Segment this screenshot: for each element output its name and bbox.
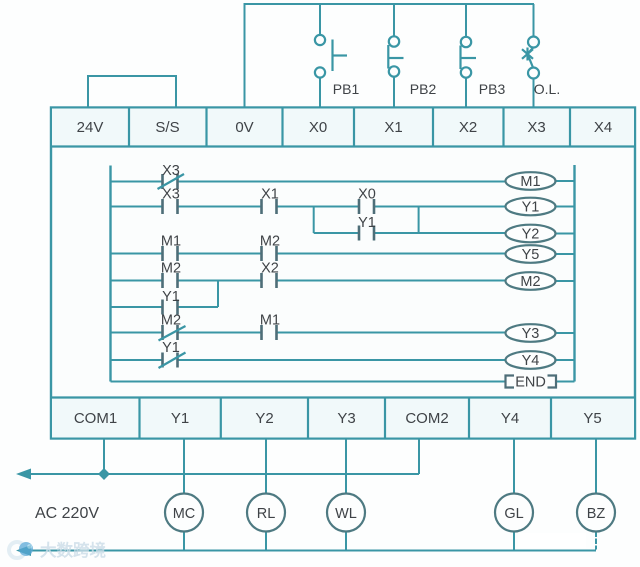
svg-text:WL: WL [335, 506, 357, 522]
contact Y1 branch rung4 [163, 300, 178, 315]
wire WL to bottom line [345, 532, 347, 551]
wire Y5 terminal to BZ [595, 439, 597, 494]
wire rung2 mid1 [178, 206, 261, 208]
wire rung5 mid [178, 332, 261, 334]
arrow AC neutral left [16, 545, 31, 556]
wire rung2 to coil Y1 [375, 206, 506, 208]
watermark logo bottom left [9, 542, 33, 558]
svg-text:M2: M2 [161, 261, 181, 277]
wire BZ drop dashes redrawn [595, 533, 597, 549]
svg-text:X2: X2 [261, 261, 279, 277]
svg-text:X1: X1 [384, 119, 402, 136]
contact X2 rung4 [262, 273, 277, 288]
svg-text:AC 220V: AC 220V [35, 505, 99, 522]
wire COM1 drop [103, 439, 105, 475]
wire rung6 left [111, 359, 163, 361]
coil Y1 [506, 198, 556, 216]
svg-text:M2: M2 [520, 274, 540, 290]
contact X3 NC rung1 [163, 174, 178, 189]
wire PB2 drop from bus [393, 4, 395, 36]
contact Y1 branch rung2 [359, 226, 374, 241]
svg-text:Y4: Y4 [501, 410, 519, 427]
wire rung2 mid2 [278, 206, 359, 208]
wire rung5 to coil Y3 [278, 332, 506, 334]
wire rung5 left [111, 332, 163, 334]
wire Y3 terminal to WL [345, 439, 347, 494]
coil M2 [506, 272, 556, 290]
wire jumper 24V to S/S [88, 76, 176, 107]
wire coil Y5 to rail [556, 253, 575, 255]
svg-text:M2: M2 [260, 234, 280, 250]
coil Y2 [506, 225, 556, 243]
wire Y4 terminal to GL [513, 439, 515, 494]
wire coil Y1 to rail [556, 206, 575, 208]
svg-text:X2: X2 [459, 119, 477, 136]
svg-text:Y4: Y4 [522, 353, 540, 369]
wire END to rail [556, 381, 575, 383]
wire PB3 to X2 terminal [465, 78, 467, 107]
svg-text:X0: X0 [358, 187, 376, 203]
contact M2 NC rung5 [163, 325, 178, 340]
svg-text:M1: M1 [520, 174, 540, 190]
svg-text:X3: X3 [527, 119, 545, 136]
wire coil Y3 to rail [556, 332, 575, 334]
coil Y4 [506, 351, 556, 369]
wire top bus [245, 4, 535, 107]
slash NC rung5 [159, 326, 186, 341]
terminal strip bottom tint [52, 399, 634, 438]
svg-text:Y1: Y1 [522, 200, 540, 216]
junction dot COM1/AC [98, 468, 110, 480]
wire rung4 parallel branch left [111, 306, 163, 308]
pushbutton PB2 (NC) [388, 36, 403, 76]
wire coil Y2 to rail [556, 233, 575, 235]
END instruction [506, 375, 557, 391]
overload contact O.L. [522, 37, 539, 79]
svg-text:Y1: Y1 [162, 340, 180, 356]
svg-text:END: END [515, 375, 546, 391]
wire MC to bottom line [183, 532, 185, 551]
svg-text:Y2: Y2 [255, 410, 273, 427]
svg-text:X4: X4 [594, 119, 612, 136]
contact M2 rung4 [163, 273, 178, 288]
wire branch to Y1 contact [314, 232, 359, 234]
ladder left rail [109, 166, 111, 382]
wire rung6 to coil Y4 [178, 359, 506, 361]
wire coil Y4 to rail [556, 359, 575, 361]
contact Y1 NC rung6 [163, 353, 178, 368]
contact M1 rung5 [262, 325, 277, 340]
ladder right rail [573, 165, 575, 382]
contact X3 NO rung2 [163, 199, 178, 214]
terminal strip bottom row [51, 398, 635, 439]
output device WL [327, 494, 365, 532]
svg-text:Y3: Y3 [337, 410, 355, 427]
wire PB1 drop from bus [319, 4, 321, 35]
svg-text:PB1: PB1 [333, 81, 360, 97]
wire Y2 terminal to RL [265, 439, 267, 494]
wire coil M2 to rail [556, 280, 575, 282]
wire branch after Y1 contact to coil Y2 [375, 232, 506, 234]
wire rung4 left [111, 280, 163, 282]
svg-text:BZ: BZ [587, 506, 606, 522]
terminal strip top tint [52, 109, 634, 146]
wire rung2 left [111, 206, 163, 208]
coil Y5 [506, 245, 556, 263]
svg-text:X0: X0 [309, 119, 327, 136]
contact M1 rung3 [163, 246, 178, 261]
wire branch rejoin vertical [418, 207, 420, 234]
svg-text:Y5: Y5 [583, 410, 601, 427]
output device MC [165, 494, 203, 532]
wire rung4 to coil M2 [278, 280, 506, 282]
slash NC rung6 [159, 353, 186, 369]
contact X1 rung2 [262, 199, 277, 214]
terminal strip top row [51, 108, 635, 147]
wire Y1 terminal to MC [183, 439, 185, 494]
arrow AC phase left [16, 469, 31, 480]
wire COM2 drop [418, 439, 420, 475]
slash NC rung1 [158, 174, 185, 189]
wire rung4 parallel branch right [178, 306, 218, 308]
contact M2 rung3 [262, 246, 277, 261]
svg-text:Y1: Y1 [171, 410, 189, 427]
svg-text:COM2: COM2 [405, 410, 448, 427]
wire rung1 left [111, 181, 163, 183]
svg-text:PB3: PB3 [479, 81, 506, 97]
wire BZ to bottom line dashed [595, 532, 597, 551]
svg-text:O.L.: O.L. [534, 81, 560, 97]
svg-text:X3: X3 [162, 163, 180, 179]
watermark smudge bottom right [518, 533, 586, 548]
svg-text:M1: M1 [260, 313, 280, 329]
wire AC neutral bottom line [28, 550, 596, 552]
svg-text:M2: M2 [161, 313, 181, 329]
wire rung3 to coil Y5 [278, 253, 506, 255]
wire PB1 to X0 terminal [319, 78, 321, 108]
wire rung3 left [111, 253, 163, 255]
coil Y3 [506, 324, 556, 342]
contact X0 rung2 [359, 199, 374, 214]
svg-text:GL: GL [504, 506, 523, 522]
output device GL [495, 494, 533, 532]
svg-text:Y1: Y1 [162, 289, 180, 305]
svg-text:0V: 0V [235, 119, 253, 136]
wire AC phase line [28, 473, 419, 475]
svg-text:COM1: COM1 [74, 410, 117, 427]
PLC outer body [51, 108, 635, 439]
svg-text:X3: X3 [162, 187, 180, 203]
svg-text:RL: RL [257, 506, 276, 522]
wire OL to X3 terminal [533, 79, 535, 108]
output device BZ [577, 494, 615, 532]
wire PB3 drop from bus [465, 4, 467, 37]
svg-text:M1: M1 [161, 234, 181, 250]
wire rung3 mid [178, 253, 261, 255]
wire coil M1 to rail [556, 180, 575, 182]
svg-text:Y1: Y1 [358, 215, 376, 231]
wire PB2 to X1 terminal [393, 77, 395, 107]
coil M1 [506, 172, 556, 190]
output device RL [247, 494, 285, 532]
svg-text:MC: MC [173, 506, 196, 522]
svg-text:大数跨境: 大数跨境 [40, 540, 107, 560]
svg-text:Y3: Y3 [522, 326, 540, 342]
svg-text:Y2: Y2 [522, 227, 540, 243]
svg-text:24V: 24V [77, 119, 104, 136]
svg-text:Y5: Y5 [522, 247, 540, 263]
wire rung1 to coil M1 [178, 181, 506, 183]
svg-text:PB2: PB2 [410, 81, 437, 97]
wire GL to bottom line [513, 532, 515, 551]
ladder rails [111, 165, 575, 382]
wire OL drop from bus [533, 4, 535, 37]
wire branch drop before X0 [313, 207, 315, 234]
pushbutton PB3 (NC) [461, 37, 477, 78]
pushbutton PB1 (NO) [315, 35, 347, 78]
wire END rung bottom [111, 381, 506, 383]
wire RL to bottom line [265, 532, 267, 551]
wire rung4 mid [178, 280, 261, 282]
wire rung4 branch rejoin vertical [217, 281, 219, 308]
svg-text:S/S: S/S [155, 119, 179, 136]
svg-text:X1: X1 [261, 187, 279, 203]
